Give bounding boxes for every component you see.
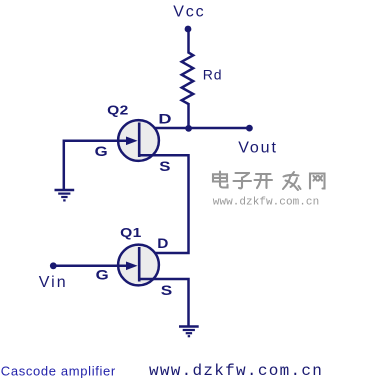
watermark chinese char 开 (255, 174, 273, 188)
ground (right, Q1 source) (179, 327, 199, 337)
wire Vcc dot to resistor top (187, 29, 190, 54)
svg-text:www.dzkfw.com.cn: www.dzkfw.com.cn (213, 196, 319, 208)
watermark chinese char 电 (213, 172, 228, 188)
terminal Vout (dot) (246, 125, 253, 132)
wire Q2 drain to Vout (139, 127, 249, 130)
transistor Q1 gate arrow (126, 262, 138, 271)
transistor Q1 body (circle) (118, 245, 159, 286)
svg-text:D: D (157, 236, 168, 251)
transistor Q2 gate arrow (126, 137, 138, 146)
svg-text:G: G (96, 268, 109, 283)
power terminal Vcc (dot) (185, 26, 192, 33)
svg-text:Vcc: Vcc (173, 4, 205, 21)
transistor Q1 gate wire (56, 265, 127, 268)
transistor Q2 body (circle) (118, 120, 159, 161)
watermark chinese char 发 (283, 172, 301, 190)
svg-text:D: D (158, 112, 171, 128)
svg-text:Rd: Rd (203, 66, 223, 82)
svg-text:Q2: Q2 (107, 103, 129, 117)
svg-text:Vin: Vin (39, 274, 68, 291)
svg-text:G: G (95, 144, 108, 159)
junction node (drain of Q2 / Rd / Vout) (185, 125, 192, 132)
svg-text:Cascode amplifier: Cascode amplifier (1, 364, 116, 379)
transistor Q1 source wire to ground (139, 279, 189, 327)
svg-text:S: S (161, 283, 172, 298)
transistor Q2 source lead (139, 155, 189, 253)
resistor Rd (182, 53, 194, 105)
watermark chinese char 网 (310, 174, 325, 189)
terminal Vin (dot) (50, 262, 57, 269)
ground (left, Q2 gate) (55, 190, 75, 200)
svg-text:Q1: Q1 (120, 226, 142, 240)
svg-text:Vout: Vout (238, 140, 278, 157)
svg-text:S: S (159, 159, 170, 174)
transistor Q2 channel bar (138, 123, 141, 158)
wire resistor bottom to drain junction (187, 103, 190, 129)
transistor Q1 channel bar (138, 247, 141, 282)
svg-text:www.dzkfw.com.cn: www.dzkfw.com.cn (149, 362, 323, 380)
watermark chinese char 子 (234, 173, 252, 188)
wire Q2 gate to ground (63, 140, 66, 191)
transistor Q2 gate wire (64, 140, 127, 143)
